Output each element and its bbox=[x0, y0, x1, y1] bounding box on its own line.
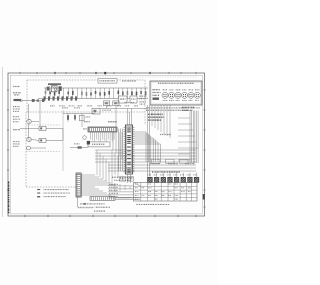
transistor Q2 bbox=[27, 137, 31, 141]
lamp L6 bbox=[181, 173, 186, 183]
label mid text bbox=[62, 107, 80, 108]
jack J1 bbox=[152, 159, 161, 163]
label U1 crystal X1 bbox=[112, 177, 133, 181]
dashed sensor box bbox=[26, 112, 77, 187]
wire key scan lines bbox=[95, 150, 196, 171]
lamp L7 bbox=[188, 173, 193, 183]
wire CN4 verticals bbox=[148, 105, 150, 182]
wire left vertical bus bbox=[62, 110, 64, 171]
capacitor C13 bbox=[74, 114, 76, 122]
regulator block VR2 bbox=[130, 96, 137, 103]
wires display risers bbox=[113, 132, 122, 159]
photo sensor Q3 bbox=[27, 146, 31, 150]
switch S2 bbox=[128, 177, 134, 181]
label VR right bbox=[139, 96, 147, 100]
display module DSP1 bbox=[87, 141, 110, 147]
label 120V 60Hz bbox=[13, 106, 20, 112]
regulator IC2 bbox=[104, 101, 110, 106]
voltage chart table bbox=[134, 183, 198, 202]
wire Q2 output bbox=[30, 140, 46, 149]
regulator IC3 bbox=[113, 101, 119, 106]
rectifier / filter component row bbox=[45, 88, 147, 99]
label pin rows bbox=[108, 184, 134, 198]
relay RY2 bbox=[39, 138, 46, 142]
wires CN5 risers bbox=[97, 150, 118, 185]
lamp L5 bbox=[174, 173, 179, 183]
wires connector box drops bbox=[152, 105, 170, 138]
connector CN6 bbox=[90, 197, 115, 201]
right vertical bus bbox=[190, 111, 198, 164]
relay RY1 bbox=[39, 126, 46, 130]
lamp L4 bbox=[168, 173, 173, 183]
diode D8 bbox=[80, 115, 91, 121]
jack J2 bbox=[166, 159, 175, 163]
wire mid rail bbox=[63, 114, 95, 128]
fuse F1 and input network bbox=[28, 99, 44, 102]
resistor R10 bbox=[70, 143, 88, 148]
capacitor C12 bbox=[67, 114, 69, 123]
rail upper (switched AC) bbox=[44, 87, 148, 89]
connector face CN2 bbox=[169, 89, 175, 101]
lamp L3 bbox=[161, 173, 166, 183]
lamp L1 bbox=[148, 173, 153, 183]
node AC-L blob bbox=[14, 99, 22, 101]
connector box footnote line 2 bbox=[146, 110, 189, 111]
label REMOTE SENSOR bbox=[13, 141, 20, 147]
filter block FL1 bbox=[92, 109, 111, 115]
wires right bus taps bbox=[178, 118, 198, 160]
label CN3 bbox=[83, 121, 116, 129]
wire CN5 outline bbox=[78, 197, 101, 207]
wires CN3 pin drops bbox=[90, 132, 114, 142]
lamp row labels bbox=[147, 174, 197, 175]
wire AC line entry bbox=[20, 99, 28, 101]
component value text row bbox=[50, 105, 138, 106]
main board dashed outline bbox=[30, 76, 196, 78]
label AC IN bbox=[13, 116, 20, 122]
U1 left pins bbox=[124, 128, 126, 172]
microcontroller U1 bbox=[125, 125, 132, 174]
label bus bbox=[160, 134, 171, 135]
connector box left labels bbox=[153, 89, 161, 100]
regulator block VR1 bbox=[119, 96, 128, 103]
connector face CN4 bbox=[182, 89, 188, 101]
connector box title bbox=[158, 83, 194, 84]
connector face CN6 bbox=[194, 89, 200, 101]
lamp row header text bbox=[152, 171, 180, 172]
transformer T1 bbox=[47, 83, 62, 92]
label right margin bbox=[182, 107, 194, 111]
legend B+ line bbox=[37, 193, 69, 194]
label CN6 bbox=[118, 197, 130, 198]
wires CN6 to right bbox=[115, 197, 140, 199]
lamp L8 bbox=[194, 173, 199, 183]
lamp L2 bbox=[154, 173, 159, 183]
connector face CN3 bbox=[175, 89, 181, 101]
transistor Q1 bbox=[27, 119, 31, 123]
wires U1 top to regulators bbox=[128, 109, 132, 126]
rail lower (DC bus) bbox=[38, 98, 148, 100]
label AC source bbox=[13, 86, 21, 96]
jack J3 bbox=[180, 159, 189, 163]
power supply unit dashed enclosure bbox=[27, 80, 145, 125]
connector face CN5 bbox=[188, 89, 194, 101]
switch S1 bbox=[120, 177, 126, 181]
caption bottom bbox=[78, 207, 110, 212]
oscillator Y1 bbox=[83, 136, 87, 140]
wire regulator to CN3 bbox=[115, 109, 117, 128]
wires U1 bottom drops bbox=[115, 174, 131, 192]
wire relay to bus bbox=[29, 101, 64, 140]
enclosure label text bbox=[122, 80, 136, 81]
label TO outputs bbox=[80, 203, 105, 205]
wire regulator output bbox=[100, 106, 147, 109]
connector detail box bbox=[150, 81, 202, 105]
capacitor bank row bbox=[44, 96, 78, 100]
connector CN3 bbox=[88, 127, 117, 132]
legend ground bbox=[37, 196, 65, 197]
label IC1 bbox=[108, 121, 117, 122]
connector CN5 vertical bbox=[76, 173, 81, 197]
note text block right bbox=[148, 114, 163, 121]
label POWER bbox=[13, 129, 20, 130]
enclosure label box bbox=[98, 79, 117, 83]
wire bundle left of U1 bbox=[119, 129, 123, 172]
legend signal flow bbox=[37, 189, 68, 190]
wire Q1 output bbox=[20, 122, 39, 129]
table footnote bbox=[136, 204, 169, 205]
U1 right pins bbox=[133, 128, 135, 172]
wires CN5 fanout bbox=[81, 175, 115, 195]
label voltage rails bbox=[125, 101, 146, 104]
label group right bbox=[150, 163, 194, 164]
connector box footnote line 1 bbox=[146, 107, 200, 108]
connector face CN1 bbox=[162, 89, 168, 101]
bus wires U1 right fanout bbox=[134, 132, 160, 162]
